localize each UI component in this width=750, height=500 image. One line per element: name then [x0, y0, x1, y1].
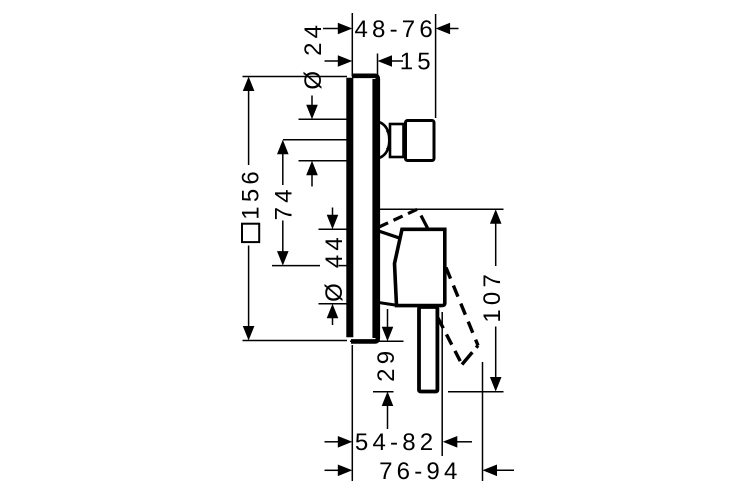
- svg-text:29: 29: [373, 347, 400, 382]
- svg-text:15: 15: [400, 48, 435, 75]
- knob ring: [390, 124, 404, 157]
- dashed body top (raised position): [379, 208, 421, 228]
- dashed lever end cap: [462, 346, 478, 365]
- dimension 48-76: [323, 16, 459, 43]
- cover plate back flange bar: [346, 78, 353, 337]
- extension line L1 (wall face, bottom): [351, 345, 353, 481]
- knob dome: [379, 122, 390, 158]
- extension line E3 (plate face): [377, 54, 379, 77]
- dimension 74: [270, 140, 346, 266]
- knob dome inner arc: [387, 131, 391, 150]
- knob cap: [406, 121, 435, 161]
- extension line L3 (lever tip, bottom): [482, 362, 484, 481]
- dimension 54-82: [325, 429, 473, 456]
- sleeve bottom line: [379, 303, 396, 306]
- dimension Ø44: [319, 208, 349, 326]
- solid stub of raised lever: [421, 216, 428, 229]
- lever bottom reference line (left segment): [373, 391, 394, 393]
- lever bar: [419, 307, 437, 392]
- svg-text:76-94: 76-94: [379, 458, 461, 485]
- cover plate (escutcheon, side view): top edge: [351, 76, 378, 342]
- dashed lever left edge: [438, 318, 462, 365]
- extension line E1 (wall face, top): [351, 13, 353, 77]
- dashed lever right edge (raised position): [446, 268, 478, 346]
- dimension 15: [325, 48, 435, 75]
- dimension 107: [380, 209, 506, 391]
- dimension 76-94: [325, 458, 515, 485]
- dimension Ø24: [299, 21, 347, 187]
- svg-text:Ø 44: Ø 44: [321, 233, 348, 302]
- handle body: [395, 229, 445, 305]
- svg-text:54-82: 54-82: [355, 429, 437, 456]
- dimension square 156: [237, 77, 347, 341]
- extension line E2 (knob tip, top): [435, 14, 437, 118]
- svg-text:Ø 24: Ø 24: [300, 21, 327, 90]
- dimension 29: [350, 309, 404, 429]
- svg-text:74: 74: [270, 185, 297, 220]
- extension line L2 (body front, bottom): [441, 312, 443, 456]
- lever bottom reference line (right segment): [448, 391, 504, 393]
- square symbol: [242, 224, 259, 242]
- cover plate right edge (heavier): [372, 79, 378, 338]
- svg-text:107: 107: [479, 270, 506, 323]
- svg-text:48-76: 48-76: [355, 16, 437, 43]
- sleeve top line: [379, 231, 401, 238]
- svg-text:156: 156: [237, 167, 264, 220]
